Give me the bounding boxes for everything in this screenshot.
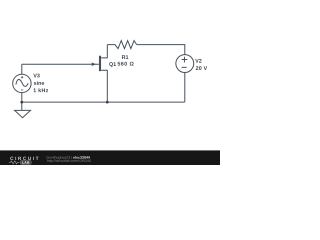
label 20 V (w=11.6) — [196, 66, 207, 70]
CircuitLab logo zigzag — [9, 161, 20, 164]
wire: top rail from R1 to V2 — [137, 45, 185, 55]
wire: Q1 emitter stub down to bottom rail — [101, 70, 107, 102]
CircuitLab logo LAB box — [20, 161, 31, 165]
V3 sine wave — [16, 79, 28, 86]
wire: bottom rail — [22, 101, 185, 103]
ground stem — [21, 102, 23, 110]
voltage source V2 circle — [176, 55, 194, 73]
credits line 2 url (ends 91.0) — [47, 159, 91, 162]
wire: V3 top vertical — [21, 64, 23, 74]
label R1 (w=6.9) — [122, 55, 128, 59]
resistor R1 zigzag — [107, 41, 136, 49]
label 1 kHz (w=15.1) — [34, 88, 49, 92]
label V2 (w=6.6) — [195, 59, 201, 63]
footer black bar — [0, 150, 220, 165]
transistor Q1 vertical bar — [99, 56, 101, 71]
junction dot at Q1 emitter/bottom rail — [106, 101, 109, 104]
V2 minus symbol — [182, 66, 187, 68]
V3 plus symbol — [21, 76, 23, 78]
ground triangle — [15, 110, 31, 117]
wire: V3 bottom vertical — [21, 93, 23, 103]
credits line 1 username (ends 73.1) — [47, 156, 72, 159]
wire: V2 bottom vertical to rail — [184, 73, 186, 103]
arrowhead on Q1 base wire — [92, 62, 96, 66]
label 560 ohm (w=16.4) — [118, 62, 134, 66]
label sine (w=10.8) — [34, 81, 44, 85]
V2 plus symbol — [182, 57, 188, 63]
label Q1 (w=7.2) — [109, 62, 116, 67]
logo text CIRCUIT (ends 40.4) — [10, 157, 38, 160]
credits line 1 circuit id (ends 89.9) — [73, 156, 90, 159]
logo text LAB (ends 29.7) — [22, 161, 29, 163]
voltage source V3 circle — [13, 74, 31, 92]
wire: Q1 collector stub — [101, 45, 107, 58]
wire: base/gate horizontal from V3 to Q1 — [22, 63, 99, 65]
V3 minus symbol — [21, 89, 23, 91]
junction dot at V3/bottom rail — [20, 101, 23, 104]
label V3 (w=6.6) — [33, 74, 39, 78]
